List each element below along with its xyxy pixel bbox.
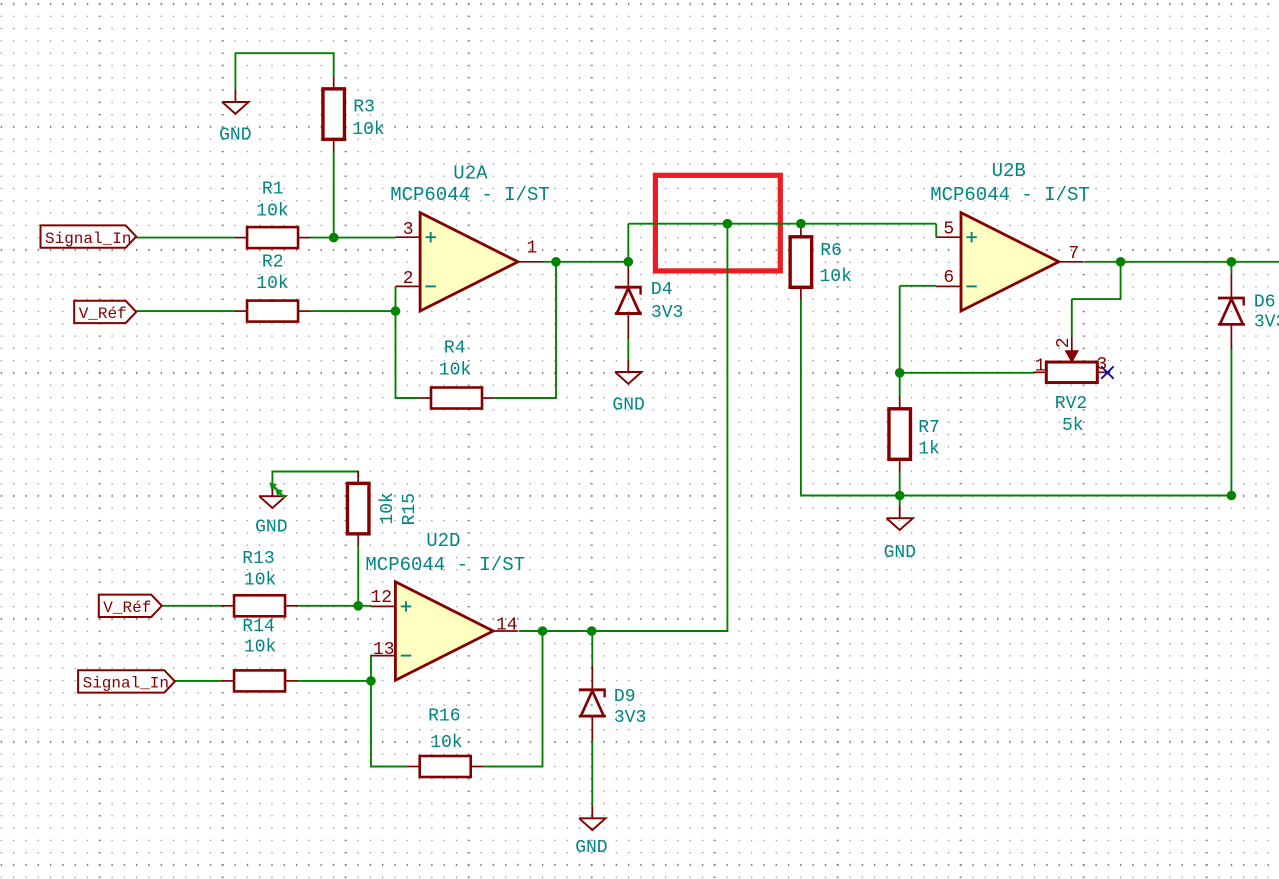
- svg-text:R13: R13: [242, 549, 274, 569]
- svg-text:R6: R6: [820, 241, 842, 261]
- svg-text:GND: GND: [219, 125, 251, 145]
- svg-text:3V3: 3V3: [651, 303, 683, 323]
- svg-text:D9: D9: [614, 687, 636, 707]
- svg-text:3: 3: [403, 220, 414, 240]
- svg-text:10k: 10k: [352, 120, 384, 140]
- svg-text:Signal_In: Signal_In: [83, 675, 169, 693]
- svg-text:D6: D6: [1254, 293, 1276, 313]
- svg-text:13: 13: [373, 640, 395, 660]
- svg-text:Signal_In: Signal_In: [45, 230, 131, 248]
- svg-text:RV2: RV2: [1055, 394, 1087, 414]
- svg-text:MCP6044 - I/ST: MCP6044 - I/ST: [930, 184, 1090, 206]
- svg-text:14: 14: [496, 616, 518, 636]
- svg-text:10k: 10k: [256, 202, 288, 222]
- svg-text:1: 1: [1035, 356, 1046, 376]
- svg-text:R15: R15: [400, 493, 420, 525]
- svg-text:GND: GND: [884, 543, 916, 563]
- svg-text:7: 7: [1068, 244, 1079, 264]
- svg-text:5k: 5k: [1062, 416, 1084, 436]
- svg-text:U2B: U2B: [992, 160, 1026, 182]
- svg-text:MCP6044 - I/ST: MCP6044 - I/ST: [365, 554, 525, 576]
- svg-text:2: 2: [1054, 337, 1074, 348]
- svg-text:6: 6: [943, 268, 954, 288]
- svg-text:D4: D4: [651, 280, 673, 300]
- svg-text:U2D: U2D: [426, 530, 460, 552]
- svg-text:V_Réf: V_Réf: [103, 599, 151, 617]
- svg-text:R7: R7: [918, 418, 940, 438]
- svg-text:2: 2: [403, 269, 414, 289]
- svg-text:3: 3: [1096, 355, 1107, 375]
- svg-text:R14: R14: [242, 617, 274, 637]
- svg-text:R4: R4: [444, 339, 466, 359]
- svg-text:V_Réf: V_Réf: [79, 305, 127, 323]
- svg-text:GND: GND: [612, 395, 644, 415]
- svg-text:10k: 10k: [378, 492, 398, 524]
- svg-text:3V3: 3V3: [1254, 312, 1279, 332]
- svg-text:5: 5: [943, 219, 954, 239]
- svg-text:1: 1: [527, 239, 538, 259]
- svg-text:U2A: U2A: [453, 162, 488, 184]
- svg-text:R3: R3: [353, 98, 375, 118]
- svg-text:R16: R16: [428, 706, 460, 726]
- svg-text:R2: R2: [262, 253, 284, 273]
- svg-text:MCP6044 - I/ST: MCP6044 - I/ST: [390, 184, 550, 206]
- svg-text:GND: GND: [255, 518, 287, 538]
- svg-text:10k: 10k: [256, 274, 288, 294]
- svg-text:10k: 10k: [244, 570, 276, 590]
- svg-text:10k: 10k: [439, 360, 471, 380]
- svg-text:R1: R1: [262, 179, 284, 199]
- svg-text:GND: GND: [575, 838, 607, 858]
- svg-text:12: 12: [370, 588, 392, 608]
- svg-text:10k: 10k: [430, 733, 462, 753]
- svg-text:1k: 1k: [918, 440, 940, 460]
- svg-text:10k: 10k: [244, 638, 276, 658]
- svg-text:3V3: 3V3: [614, 708, 646, 728]
- svg-text:10k: 10k: [820, 267, 852, 287]
